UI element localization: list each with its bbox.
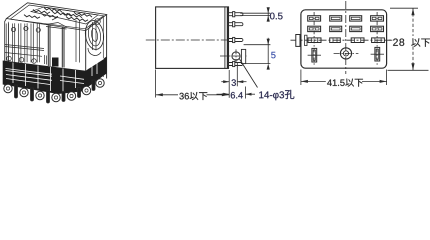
armature card [5, 45, 44, 57]
dim 36max [156, 70, 229, 98]
side view: mounting hole phi3 [232, 52, 240, 60]
base white details [6, 59, 105, 93]
coil terminal A [308, 48, 321, 62]
contact rivets lower [7, 56, 12, 61]
side view: clip slot bar [241, 49, 245, 63]
side view: horizontal center line [146, 39, 231, 41]
label 36max [179, 92, 207, 100]
pin ring bosses [4, 79, 104, 102]
coil [84, 19, 106, 50]
contact rivets upper [11, 27, 15, 31]
3D relay perspective view [5, 3, 107, 93]
dim 28max [387, 8, 429, 70]
middle row terminal slots [308, 38, 384, 43]
dim 0.5 pin thickness [240, 8, 270, 21]
label 28 [393, 39, 398, 46]
left tab [296, 35, 300, 47]
coil front foot [52, 58, 59, 67]
dim 3 and 6.4 extension lines [217, 63, 256, 99]
label 41.5max [327, 79, 363, 87]
pin blades [15, 80, 96, 103]
label ika [411, 38, 430, 46]
col D center line [376, 12, 378, 66]
coil terminal D [371, 47, 384, 61]
contact springs [6, 23, 8, 62]
dim 5 [244, 38, 271, 64]
terminal layout: outer rounded rect [301, 10, 387, 68]
label 0.5 [270, 13, 283, 20]
label 5 [271, 52, 275, 58]
leader 14-phi3 [240, 59, 258, 88]
mounting hole (double circle) [340, 48, 351, 59]
horizontal center line [291, 39, 392, 41]
case edges [5, 19, 7, 88]
label plate [31, 7, 98, 24]
label 14-phi3-holes [259, 90, 294, 100]
label 3 [232, 79, 236, 86]
top terminal slots [308, 16, 384, 32]
side view: relay case outline 36mm [156, 7, 229, 69]
relay base (dark) [3, 57, 107, 95]
label 6.4 [231, 92, 243, 99]
dim 41.5max [301, 70, 387, 86]
vertical center line [345, 1, 347, 74]
col A center line [313, 12, 315, 66]
side view: pins [229, 12, 243, 67]
case top face [7, 3, 107, 31]
label markings [24, 8, 92, 22]
